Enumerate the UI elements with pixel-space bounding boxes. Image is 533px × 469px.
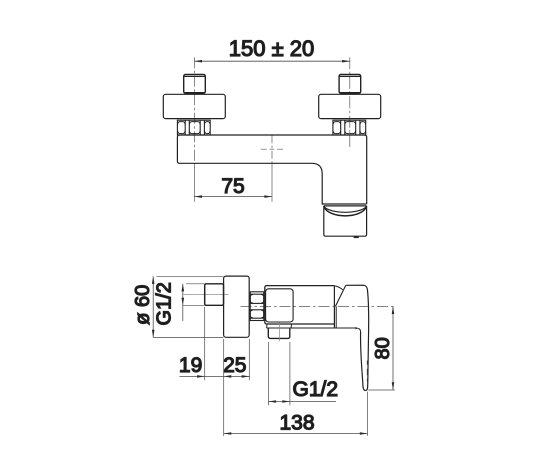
crescent seam bbox=[324, 206, 367, 212]
handle hub diagonal bbox=[335, 285, 345, 306]
centerline left fitting bbox=[193, 57, 195, 163]
top nut left bbox=[184, 75, 206, 94]
hex nut side bbox=[250, 292, 264, 321]
centerline right fitting bbox=[349, 57, 351, 147]
dimension G1/2 inlet bbox=[182, 284, 205, 321]
inlet axis centerline bbox=[184, 293, 229, 295]
svg-text:19: 19 bbox=[179, 354, 202, 377]
svg-text:138: 138 bbox=[279, 412, 314, 435]
escutcheon side bbox=[224, 276, 250, 337]
outlet tube bbox=[268, 328, 290, 338]
outlet flange bbox=[267, 324, 292, 328]
center mark horizontal bbox=[261, 148, 284, 150]
svg-text:80: 80 bbox=[372, 337, 394, 359]
cartridge cover inner rect bbox=[266, 289, 294, 322]
mixer body (top view, L-shape) bbox=[177, 135, 366, 204]
svg-text:75: 75 bbox=[221, 175, 244, 198]
dimension G1/2 outlet bbox=[269, 342, 337, 405]
outlet centerline bbox=[278, 323, 280, 342]
lever left edge bbox=[361, 332, 366, 391]
handle top and right edge bbox=[346, 285, 369, 390]
aerator tick bbox=[354, 236, 359, 238]
svg-text:G1/2: G1/2 bbox=[154, 282, 176, 325]
svg-text:G1/2: G1/2 bbox=[293, 378, 339, 401]
centerline middle (spout axis) bbox=[271, 135, 273, 164]
svg-text:150 ± 20: 150 ± 20 bbox=[229, 36, 314, 61]
inlet square bbox=[205, 284, 224, 306]
spout cap (top view) bbox=[324, 206, 367, 236]
top nut right bbox=[339, 75, 361, 94]
body axis centerline bbox=[241, 306, 395, 308]
body right edge double line bbox=[333, 286, 335, 328]
dimension 138 bbox=[224, 392, 368, 436]
escutcheon right bbox=[319, 94, 381, 118]
dimension 150 ± 20 bbox=[194, 60, 349, 63]
underside plate and barb bbox=[267, 327, 356, 329]
lever hidden edge dashes bbox=[366, 361, 368, 383]
dimensions 19 / 25 bbox=[179, 307, 250, 419]
hex nut left bbox=[177, 120, 210, 135]
hub corner curve bbox=[334, 286, 342, 290]
dimension ø60 bbox=[152, 276, 224, 337]
dimension 75 bbox=[194, 195, 272, 198]
dimension 80 bbox=[368, 306, 395, 390]
body side view bbox=[265, 286, 335, 324]
escutcheon left bbox=[163, 94, 225, 118]
svg-text:ø 60: ø 60 bbox=[132, 285, 154, 325]
hex nut right bbox=[333, 120, 366, 135]
svg-text:25: 25 bbox=[223, 354, 246, 377]
